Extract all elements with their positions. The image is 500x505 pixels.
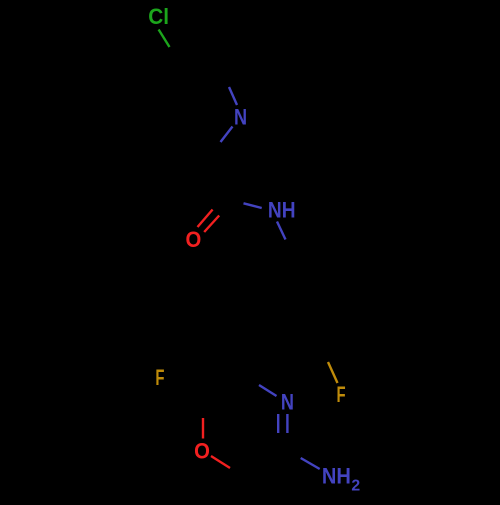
- fluorine label F left: [155, 365, 164, 390]
- svg-text:O: O: [186, 227, 202, 252]
- svg-text:F: F: [155, 365, 164, 390]
- amine label NH2: [322, 463, 361, 494]
- C=O double bond half line 1 (red): [198, 210, 213, 228]
- C=O double bond half line 2 (red): [204, 216, 219, 233]
- svg-text:NH: NH: [268, 197, 296, 222]
- amide N-H label NH: [268, 197, 296, 222]
- ring oxygen label O: [194, 438, 210, 463]
- chlorine label Cl: [148, 4, 169, 29]
- svg-text:N: N: [234, 105, 247, 130]
- carbonyl oxygen label O: [186, 227, 202, 252]
- bond C-F half (gold): [328, 362, 338, 383]
- bond NH-aryl half (blue): [277, 222, 286, 240]
- bond Cl-C half (green): [159, 30, 170, 48]
- C=N double bond half line left (blue): [277, 414, 279, 433]
- bond C-N upper half (blue): [229, 87, 237, 105]
- svg-text:F: F: [336, 382, 345, 407]
- bond C-N(H) half (blue): [244, 203, 262, 208]
- svg-text:N: N: [281, 389, 294, 414]
- svg-text:O: O: [194, 438, 210, 463]
- bond O-CH2 half (red): [211, 456, 230, 468]
- C=N double bond half line right (blue): [286, 414, 288, 433]
- bond N-C lower-left half (blue): [221, 127, 233, 143]
- bond C-N half into ring N (blue): [259, 385, 277, 396]
- svg-text:2: 2: [351, 478, 360, 495]
- bond C-NH2 half (blue): [301, 458, 320, 469]
- fluorine label F right: [336, 382, 345, 407]
- bond C-O vertical half (red): [202, 418, 204, 439]
- svg-text:Cl: Cl: [148, 4, 169, 29]
- oxazine nitrogen label N: [281, 389, 294, 414]
- pyridine nitrogen label N: [234, 105, 247, 130]
- svg-text:NH: NH: [322, 463, 351, 488]
